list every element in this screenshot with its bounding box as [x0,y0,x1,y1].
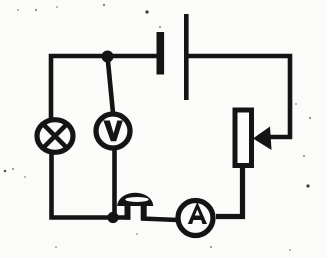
wire: voltmeter top lead to junction [108,57,114,114]
wire: top-left horizontal + left vertical drop to lamp [51,56,158,119]
battery positive plate (long thin) [184,14,189,100]
lamp L1 (circle with X) [37,120,73,153]
ammeter A (circle) [178,201,213,236]
voltmeter V (circle) [96,114,130,148]
wire: battery right to top-right corner, down, and wiper lead [189,56,291,137]
junction dot (bottom node) [107,212,118,223]
wire: switch right leg to ammeter [141,219,178,221]
junction dot (top node) [102,51,114,63]
ammeter letter A [188,202,207,224]
wire: rheostat bottom lead and bottom-right rail [216,165,243,217]
push-button switch: dome cap [117,193,153,206]
rheostat body (rectangle) [235,110,252,166]
voltmeter letter V [103,121,122,142]
wire: voltmeter bottom lead [112,149,117,218]
push-button switch: right leg [141,204,147,220]
wire: lamp bottom to bottom-left corner and bottom rail to switch [52,152,131,218]
battery negative plate (short thick) [157,32,165,75]
push-button switch: cap white underside [125,197,148,202]
push-button switch: left leg [125,204,131,220]
wiper arrowhead [253,127,272,151]
